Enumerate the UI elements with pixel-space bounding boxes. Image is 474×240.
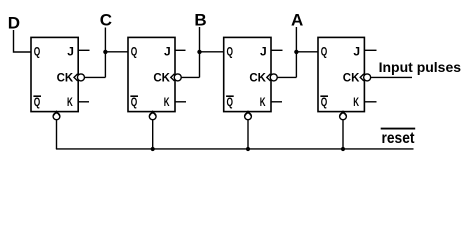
wire U4 K stub xyxy=(364,101,376,103)
svg-text:reset: reset xyxy=(382,130,416,147)
wire U3 J stub xyxy=(271,49,283,51)
U2 reset diamond xyxy=(149,111,156,119)
svg-text:J: J xyxy=(67,44,74,58)
wire node C to U1 CK xyxy=(84,76,105,78)
wire node C to U2 Q output xyxy=(105,51,128,53)
svg-text:C: C xyxy=(100,11,112,30)
U4 Qbar overline xyxy=(320,95,328,97)
junction node B xyxy=(197,50,201,54)
svg-text:Q: Q xyxy=(131,95,138,109)
wire U2 reset drop xyxy=(152,120,154,149)
U3 reset diamond xyxy=(245,111,252,119)
svg-text:CK: CK xyxy=(153,70,170,84)
U3 CK dynamic-input diamond xyxy=(267,74,277,81)
svg-text:Q: Q xyxy=(227,44,234,58)
wire U4 reset drop xyxy=(342,120,344,149)
svg-text:CK: CK xyxy=(57,70,74,84)
U2 CK dynamic-input diamond xyxy=(171,74,181,81)
junction U2 reset xyxy=(151,147,155,151)
wire U4 J stub xyxy=(364,49,376,51)
svg-text:Q: Q xyxy=(227,95,234,109)
svg-text:Q: Q xyxy=(131,44,138,58)
wire D to U1 Q output xyxy=(14,30,32,52)
junction node A xyxy=(294,50,298,54)
wire node B to U3 Q output xyxy=(200,51,224,53)
svg-text:B: B xyxy=(194,10,206,29)
wire U1 J stub xyxy=(78,49,89,51)
label reset overline xyxy=(381,128,416,130)
wire U3 K stub xyxy=(271,101,282,103)
junction node C xyxy=(103,50,107,54)
wire U1 K stub xyxy=(78,101,89,103)
wire reset rail xyxy=(56,148,414,150)
U4 reset diamond xyxy=(340,111,347,119)
svg-text:K: K xyxy=(260,95,266,109)
U1 reset diamond xyxy=(53,111,60,119)
svg-text:Q: Q xyxy=(34,44,41,58)
U3 Qbar overline xyxy=(226,95,234,97)
svg-text:CK: CK xyxy=(343,70,360,84)
svg-text:J: J xyxy=(164,44,171,58)
svg-text:J: J xyxy=(260,44,267,58)
wire U1 reset drop xyxy=(56,120,58,149)
wire node A to U3 CK xyxy=(277,76,296,78)
svg-text:Q: Q xyxy=(321,95,328,109)
wire U3 reset drop xyxy=(247,120,249,149)
svg-text:Q: Q xyxy=(321,44,328,58)
wire node B to U2 CK xyxy=(181,76,199,78)
wire U2 K stub xyxy=(175,101,186,103)
flip-flop U1 body xyxy=(31,37,78,111)
svg-text:K: K xyxy=(164,95,170,109)
wire node C vertical xyxy=(104,28,106,78)
wire node A to U4 Q output xyxy=(296,51,318,53)
junction U4 reset xyxy=(341,147,345,151)
flip-flop U3 body xyxy=(224,37,271,111)
svg-text:Input pulses: Input pulses xyxy=(379,59,462,75)
svg-text:J: J xyxy=(353,44,360,58)
svg-text:A: A xyxy=(291,10,303,29)
svg-text:K: K xyxy=(67,95,73,109)
flip-flop U4 body xyxy=(318,37,364,111)
svg-text:D: D xyxy=(8,14,20,33)
U1 Qbar overline xyxy=(33,95,41,97)
wire input pulses to U4 CK xyxy=(371,76,413,78)
U4 CK dynamic-input diamond xyxy=(360,74,370,81)
junction U3 reset xyxy=(246,147,250,151)
svg-text:K: K xyxy=(353,95,359,109)
U1 CK dynamic-input diamond xyxy=(74,74,84,81)
flip-flop U2 body xyxy=(128,37,175,111)
wire node B vertical xyxy=(199,27,201,77)
svg-text:CK: CK xyxy=(249,70,266,84)
wire node A vertical xyxy=(295,27,297,77)
U2 Qbar overline xyxy=(130,95,138,97)
svg-text:Q: Q xyxy=(34,95,41,109)
wire U2 J stub xyxy=(175,49,186,51)
